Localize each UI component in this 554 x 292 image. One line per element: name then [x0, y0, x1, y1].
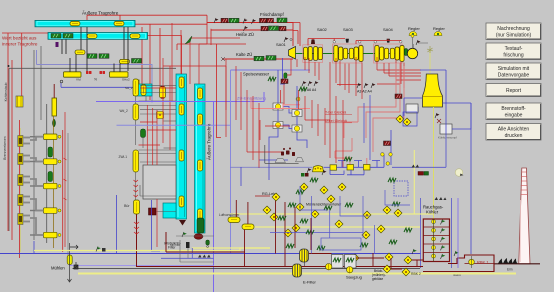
pale icon at 458,172	[455, 169, 463, 177]
HD heater A6	[273, 122, 283, 129]
light box mid	[143, 165, 176, 199]
cw pump diamond 2	[403, 118, 411, 126]
wide drum box Vfd	[64, 72, 82, 82]
svg-text:Eim: Eim	[507, 268, 513, 272]
green capsule left of turbines	[284, 73, 287, 79]
purple long vertical line	[213, 101, 215, 292]
steam admission red risers	[293, 23, 401, 47]
blue line y87.3	[61, 83, 143, 87]
green chevrons mid	[344, 157, 352, 161]
E-Filter inlet dark red	[310, 218, 312, 250]
Rauchgas-Kuehler frame	[423, 219, 449, 262]
button Simulation mit Datenvorgabe	[486, 63, 541, 80]
dashed marks near filter	[198, 255, 211, 258]
pale yellow line upper	[192, 247, 270, 249]
blue mid horizontal y232	[270, 232, 363, 234]
svg-text:Kalte ZÜ: Kalte ZÜ	[236, 52, 252, 57]
red extraction staircase	[335, 63, 404, 165]
RGK column line	[433, 219, 435, 262]
svg-text:SA04: SA04	[383, 27, 394, 32]
svg-text:(nur Simulation): (nur Simulation)	[496, 33, 532, 39]
dark red mill risers	[276, 196, 296, 267]
red lines mid	[247, 62, 343, 168]
svg-text:MD HD: MD HD	[170, 243, 181, 247]
tube element A2	[179, 104, 184, 115]
bottom dark line	[73, 262, 420, 269]
turbine SA02 body	[303, 40, 323, 63]
button Textauffrischung	[486, 43, 541, 60]
yellow wire from mill line	[73, 268, 79, 270]
burner B4	[18, 195, 30, 206]
svg-text:ÜHo2: ÜHo2	[122, 77, 130, 81]
blue verticals bottom-middle	[312, 196, 375, 254]
green capsule at 140,129	[141, 129, 146, 138]
standalone capsule at 159,87	[160, 86, 166, 99]
air heater capsule H2	[242, 224, 254, 230]
LUVO risers dark red	[236, 200, 248, 267]
left burner column wires	[19, 120, 21, 258]
extra chevrons right	[310, 178, 318, 182]
blue riser at 34	[33, 241, 35, 254]
turbine SA03 body	[333, 39, 364, 63]
svg-text:SA03: SA03	[343, 27, 354, 32]
tower downcomer yellow line	[433, 107, 435, 261]
superheater element 2 in bar2	[130, 34, 140, 39]
flue duct to chimney dark red	[494, 263, 540, 265]
Frischdampf line	[207, 23, 293, 47]
triple marks at 412,165	[412, 165, 420, 168]
red mesh wires center	[64, 23, 247, 247]
shaft line green	[296, 53, 408, 55]
svg-text:Äußere Tragrohre: Äußere Tragrohre	[206, 123, 212, 160]
RBK inner line	[465, 263, 495, 265]
spray splash	[427, 46, 433, 53]
heater H1	[30, 134, 61, 140]
svg-text:Kühlturmsumpf: Kühlturmsumpf	[438, 136, 457, 140]
Saugzug box 2	[345, 255, 357, 269]
ejector triangle 1	[275, 159, 286, 163]
purple mid horizontal y125	[117, 124, 231, 126]
cw pump white box	[406, 104, 418, 113]
mill feeder icon at 17,96	[16, 96, 23, 107]
blue misc frame right	[364, 95, 417, 196]
svg-text:Kohlenstaub: Kohlenstaub	[4, 82, 8, 101]
green flag below bar A	[182, 232, 187, 237]
valve circle V1	[381, 153, 385, 157]
svg-text:Bür: Bür	[124, 204, 130, 208]
Saugzug box 1	[332, 255, 344, 269]
small green valve at 188,38	[185, 36, 192, 44]
purple riser right	[457, 198, 459, 268]
blue vertical line at 227	[230, 70, 232, 254]
svg-text:ZWi-1: ZWi-1	[119, 155, 128, 159]
mini yellow box at 157,118	[157, 112, 164, 119]
tube element A1	[179, 77, 184, 88]
heater H3	[30, 183, 61, 189]
green flag at 414 252	[412, 249, 417, 254]
svg-text:Datenvorgabe: Datenvorgabe	[498, 73, 530, 79]
Saugzug duct loop	[309, 253, 402, 269]
svg-text:gebläse: gebläse	[372, 277, 383, 281]
feedwater tank	[313, 166, 324, 172]
pale yellow air line y214	[230, 213, 434, 215]
svg-text:SA01: SA01	[276, 42, 287, 47]
RGK cell 1	[432, 220, 446, 225]
cw pump diamond 1	[396, 115, 404, 123]
tower waterline	[423, 96, 443, 98]
burner B5	[18, 214, 30, 225]
diamond M8	[351, 254, 359, 262]
svg-text:RBK 2: RBK 2	[411, 272, 421, 276]
gray stub lines mid-bottom	[176, 236, 214, 262]
center dense wiring red vertical bundle	[226, 66, 290, 140]
Heisse ZUE line	[211, 29, 293, 31]
superheater element in bar2	[87, 34, 97, 39]
svg-text:Simulation mit: Simulation mit	[498, 66, 530, 72]
red arrow pairs on riser	[134, 222, 139, 234]
button Report	[486, 84, 541, 97]
row green hx 1	[87, 54, 97, 59]
yellow circle valve at 298,99	[296, 97, 300, 101]
RBK2 diamond	[402, 268, 410, 276]
button Alle Ansichten drucken	[486, 124, 541, 141]
svg-text:Äußere Tragrohre: Äußere Tragrohre	[82, 10, 119, 16]
green flag + dark box on line	[96, 247, 106, 252]
blue stub at 282	[280, 58, 285, 84]
green riser capsule 1	[48, 147, 53, 157]
row green hx 3	[132, 59, 142, 64]
tube element B3	[198, 160, 203, 171]
RGK cell 5	[432, 254, 446, 259]
HZ dark hx2	[279, 26, 286, 31]
vertical tube bar B	[195, 84, 206, 233]
burner B1	[18, 136, 30, 147]
condensate blue loops	[231, 130, 447, 175]
wire red trunk top-left	[2, 15, 211, 240]
svg-text:SA02: SA02	[317, 27, 328, 32]
superheater element SH2 in bar1	[114, 21, 124, 26]
yellow vertical x414	[413, 150, 415, 214]
wide drum box UeHo2	[110, 72, 131, 82]
svg-text:Heiße ZÜ: Heiße ZÜ	[236, 32, 254, 37]
diamond M3	[363, 211, 371, 219]
diamond at 408 260	[404, 256, 412, 264]
turbine SA01 wedge	[289, 47, 296, 60]
tube element A4	[179, 196, 184, 207]
diamond E4	[292, 224, 300, 232]
dark arrow below bar A	[179, 220, 186, 226]
blue riser at 151	[152, 200, 161, 251]
Buer capsule	[134, 200, 140, 214]
diamond D2	[320, 186, 328, 194]
dark red box at 149,208	[149, 208, 157, 215]
RGK cell 4	[432, 245, 446, 250]
riser capsule Wd_2	[120, 104, 139, 120]
blue vertical line at 222	[225, 59, 227, 137]
RBK loop dark red	[423, 255, 494, 272]
RGK cell 2	[432, 228, 446, 233]
red annotation underline	[325, 115, 352, 123]
HZ dark hx	[261, 26, 268, 31]
pale yellow air line y227	[254, 226, 420, 228]
svg-text:Regler: Regler	[408, 26, 420, 31]
green capsule bottom of bar B	[197, 218, 204, 233]
svg-text:Saugzug: Saugzug	[346, 275, 362, 280]
svg-text:SH_2: SH_2	[125, 86, 133, 90]
mill capsule	[67, 255, 72, 265]
heater H5	[30, 232, 61, 238]
svg-text:%: %	[94, 78, 97, 82]
RG dark red trunk	[166, 232, 245, 252]
Kalte ZUE line	[222, 58, 293, 60]
E-Filter cylinder 1	[300, 249, 309, 266]
pink stub bottom-left	[280, 104, 300, 106]
riser capsule top	[133, 79, 139, 96]
diamond E3	[284, 229, 292, 237]
HD heater A5	[292, 110, 302, 117]
economizer element green 2 in bar2	[63, 34, 73, 39]
mill drop line	[68, 243, 72, 282]
dark red riser Buer	[136, 214, 138, 267]
FD valve flag 1	[214, 18, 219, 23]
central mesh wires gray/dark	[136, 86, 176, 212]
cooling tower	[423, 74, 443, 107]
tall yellow box SH2 right	[125, 80, 139, 96]
bottom pale yellow main	[78, 273, 516, 275]
svg-text:Vfd: Vfd	[76, 77, 81, 81]
RGK row separators	[423, 227, 449, 253]
turbine extraction red drops	[284, 57, 421, 104]
dark red comp above V	[384, 141, 391, 146]
burner B2	[18, 154, 30, 165]
heater H2	[30, 159, 61, 165]
RBK valve yellow circle	[469, 256, 475, 268]
green riser capsule 2	[48, 172, 53, 182]
twin diamond lower	[383, 265, 391, 273]
purple horizontal line ZUE	[96, 92, 264, 102]
vertical tube bar A	[176, 74, 187, 219]
green chevron marks bottom	[288, 203, 296, 207]
svg-text:Speisewasser: Speisewasser	[243, 72, 270, 77]
heater H4	[30, 208, 61, 214]
tube element B4	[198, 209, 203, 220]
vertical bundle from bar2 down	[62, 27, 128, 72]
makeup icons dark	[395, 94, 402, 99]
feedwater train HD heater A7	[273, 103, 283, 110]
green teardrop below evaporator	[53, 119, 56, 127]
Saugzug fan 2	[347, 267, 353, 273]
small black box bottom mid	[186, 242, 190, 248]
button Brennstoffeingabe	[486, 103, 541, 120]
RGK side blue lines	[451, 198, 453, 268]
FD green hx	[229, 18, 239, 23]
condensate header dark line	[265, 145, 299, 163]
button Nachrechnung	[486, 23, 541, 40]
node circle at 61.5,81.5	[60, 80, 63, 83]
HD heater A4	[292, 125, 302, 132]
svg-text:Wert bezieht aus: Wert bezieht aus	[2, 36, 37, 41]
LP heater ND2	[347, 165, 354, 171]
diamond M7	[385, 253, 393, 261]
birds marks	[498, 258, 518, 264]
generator G1	[407, 35, 417, 59]
condenser hotwell box	[440, 124, 452, 134]
svg-text:Brennstoff-: Brennstoff-	[501, 106, 526, 112]
bottom right link to RBK	[412, 260, 423, 266]
Saugzug fan 1	[326, 264, 332, 270]
air heater capsule H	[228, 217, 240, 223]
cyan patch left of bar A bottom	[163, 203, 176, 218]
red-green comp on yellow line	[418, 172, 429, 176]
LP heater ND1	[330, 165, 337, 170]
valve cluster dark marks	[281, 148, 295, 157]
HZ flag	[244, 26, 249, 31]
svg-text:Mühlen: Mühlen	[51, 266, 65, 271]
svg-text:Regler: Regler	[433, 26, 445, 31]
svg-text:Brennerebenen: Brennerebenen	[3, 136, 7, 159]
bottom blue condensate main	[0, 253, 421, 255]
extra chevrons	[278, 216, 286, 220]
svg-text:Report: Report	[506, 88, 522, 94]
KZ hatch mark	[221, 57, 225, 61]
valve circle V2	[389, 153, 393, 157]
svg-text:E-Filter: E-Filter	[303, 280, 317, 285]
green flag right of RGK	[454, 251, 459, 256]
diamond E1	[263, 206, 271, 214]
arrow mark at 75,245	[70, 245, 78, 249]
HZ green hx	[269, 26, 279, 31]
heater column trunk lines	[47, 104, 68, 255]
KZ green hx	[254, 56, 264, 61]
red vertical 216.5	[217, 44, 222, 138]
component row under bars: oval 1	[75, 50, 85, 55]
diamond M1	[311, 210, 319, 218]
mill icon dark	[74, 265, 78, 269]
turbine SA04 body	[374, 39, 405, 63]
tube element B1	[198, 88, 203, 99]
FD dark hx	[221, 18, 228, 23]
riser capsule ZWi-1	[119, 150, 139, 172]
diamond M5	[377, 225, 385, 233]
blue frame bottom-middle	[321, 238, 361, 250]
FD dark hx 3	[267, 18, 274, 23]
red collectors under LP turbines	[337, 83, 400, 86]
icon cluster top of train	[268, 77, 276, 81]
svg-text:Wd_2: Wd_2	[120, 109, 129, 113]
svg-text:A3 A2 A4: A3 A2 A4	[357, 90, 372, 94]
svg-text:Alle Ansichten: Alle Ansichten	[498, 127, 530, 133]
row green hx 2	[99, 54, 109, 59]
tiny flags above labels	[357, 83, 362, 88]
red chevrons above Buer	[134, 180, 138, 197]
diamond E2	[270, 213, 278, 221]
air duct stubs gray	[30, 137, 44, 235]
dark red bottom main	[136, 266, 423, 268]
LP heater ND3	[364, 165, 371, 171]
chimney	[519, 168, 530, 264]
svg-text:frischung: frischung	[503, 53, 524, 59]
FD flag 3	[252, 19, 257, 24]
valve dark at 56,42	[56, 42, 59, 47]
feedwater blue circuit	[241, 70, 307, 186]
svg-text:drucken: drucken	[505, 133, 523, 139]
FD green hx 2	[277, 18, 287, 23]
purple line y65	[37, 50, 153, 103]
svg-text:RBK 1: RBK 1	[477, 260, 489, 265]
RGK cell 3	[432, 237, 446, 242]
gray line y67	[9, 68, 176, 231]
pale yellow line left segment	[34, 248, 270, 251]
Regler label 2	[433, 26, 445, 36]
tube element A3	[179, 150, 184, 161]
outer tube bar 2	[48, 33, 148, 40]
cooling circuit blue lines	[404, 70, 471, 134]
economizer element green in bar2	[51, 34, 61, 39]
svg-text:Nachrechnung: Nachrechnung	[497, 26, 530, 32]
red DD marks between drums	[86, 71, 105, 74]
svg-text:Frischdampf: Frischdampf	[260, 12, 284, 17]
tube element B2	[198, 114, 203, 125]
FD flag 2	[243, 19, 248, 24]
exciter flag above generator	[414, 40, 429, 49]
inner tube small cyan box	[136, 84, 152, 96]
dark green pair at 302,174	[301, 173, 309, 177]
blue long right riser	[470, 103, 472, 254]
diamond M4	[383, 206, 391, 214]
dark red blob below bar B	[194, 234, 203, 240]
triple marks at 436,198	[435, 197, 447, 200]
row oval 2	[120, 59, 130, 64]
pink ZUE spray lines	[251, 97, 310, 109]
extra diamonds right	[327, 195, 335, 203]
diamond M2	[335, 220, 343, 228]
condensate pump icons	[435, 113, 441, 123]
FD dark hx 2	[260, 18, 267, 23]
ducts gray top-left	[34, 46, 41, 240]
KZ green hx2	[266, 56, 276, 61]
Speisewasser blue line	[231, 69, 311, 71]
diamond D3	[338, 183, 346, 191]
E-Filter cylinder 2	[293, 264, 302, 277]
svg-text:Luftvorwärmer: Luftvorwärmer	[219, 213, 240, 217]
diamond D1	[300, 183, 308, 191]
evaporator tall yellow box	[52, 84, 57, 116]
shaft coupling green capsule	[404, 49, 407, 56]
svg-text:Textauf-: Textauf-	[505, 46, 523, 52]
Regler label 1	[408, 26, 420, 36]
cooling tower spray line	[429, 50, 431, 73]
green capsule at 206,240	[206, 240, 210, 248]
svg-text:eingabe: eingabe	[505, 113, 523, 119]
diamond M6	[362, 231, 370, 239]
blue riser at 116	[116, 195, 118, 254]
ejector triangle 2	[296, 158, 304, 162]
blue L pipes	[300, 186, 410, 216]
extra diamonds	[272, 193, 280, 201]
valve circle V3	[386, 162, 390, 166]
superheater element SH1 in bar1	[70, 21, 80, 26]
blue jog segment	[161, 248, 214, 258]
khaki line through burners	[20, 128, 22, 252]
svg-text:innerer Tragrohre: innerer Tragrohre	[2, 42, 38, 47]
burner B3	[18, 175, 30, 186]
outer tube bar 1 (Aeussere Tragrohre)	[35, 10, 135, 27]
RG red loop left	[255, 195, 270, 197]
small flags row	[307, 168, 312, 173]
purple bottom horizontal	[69, 264, 214, 266]
